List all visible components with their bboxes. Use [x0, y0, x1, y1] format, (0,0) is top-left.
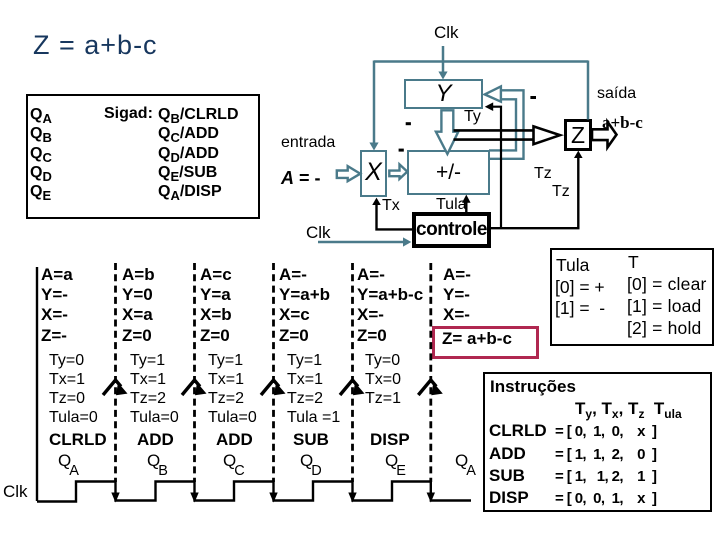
label Clk bottom [3, 482, 28, 502]
label T legend [628, 252, 639, 273]
transition arrow 2 [182, 380, 207, 395]
row CLRLD [489, 421, 547, 441]
minus sign at Y feedback [530, 96, 536, 99]
state column 5 node QE [385, 451, 406, 471]
clock edge dashed line 2 [193, 263, 196, 482]
state column 3 instruction ADD [216, 430, 253, 450]
ALU +/- [407, 150, 490, 195]
bus arrow register Y down to ALU [436, 110, 458, 154]
state column 2 controls [130, 351, 179, 427]
node QA..QE list [30, 105, 52, 201]
state column 6 registers [443, 265, 471, 326]
minus sign above ALU [399, 149, 404, 152]
label A = - [281, 168, 321, 189]
header Ty Tx Tz Tula [575, 399, 682, 419]
bus arrowhead into register Y [485, 86, 501, 101]
state column 4 instruction SUB [293, 430, 329, 450]
row SUB [489, 466, 525, 486]
wire ALU feedback to Y inner [489, 99, 516, 150]
wire Clk branch to register X [369, 61, 378, 151]
clock falling edge arrow 1 [111, 493, 119, 503]
state column 1 controls [49, 351, 98, 427]
label entrada [281, 134, 335, 152]
wire Clk bus horizontal [374, 60, 588, 63]
clock falling edge arrow 5 [427, 493, 435, 503]
clock waveform [37, 482, 471, 502]
state column 3 node QC [223, 451, 245, 471]
state column 1 node QA [58, 451, 79, 471]
minus sign left of Y-ALU arrow [406, 122, 411, 125]
register X [360, 150, 387, 197]
state column 6 node QA [455, 451, 476, 471]
state column 5 instruction DISP [370, 430, 410, 450]
result box Z= a+b-c [432, 326, 539, 359]
row DISP [489, 488, 529, 508]
wire Tula from controle to ALU [462, 195, 471, 213]
T [2] row [627, 318, 702, 339]
state column 5 controls [365, 351, 401, 408]
T [1] row [627, 296, 702, 317]
clock edge dashed line 1 [114, 263, 117, 482]
state column 3 registers [200, 265, 232, 346]
bus arrow register X to ALU [389, 164, 407, 179]
clock edge dashed line 4 [351, 263, 354, 482]
node transition list QB/CLRLD etc [158, 105, 239, 201]
T [0] row [627, 274, 707, 295]
transition arrow 3 [261, 380, 286, 395]
label Tz upper [534, 165, 552, 183]
title Z = a+b-c [33, 30, 158, 61]
wire Ty from controle to register Y [485, 102, 501, 228]
Instrucoes table [483, 372, 712, 512]
register Z [564, 119, 592, 151]
wire Tz from controle to register Z [490, 151, 583, 229]
label a+b-c output [602, 113, 643, 133]
bus arrow input A to register X [337, 166, 361, 181]
Tula [1] row [555, 298, 605, 319]
label Tula [436, 196, 467, 214]
state column 3 controls [208, 351, 257, 427]
transition arrow 5 [418, 380, 443, 395]
label Tx [382, 197, 400, 215]
wire ALU feedback to Y outer [490, 90, 524, 159]
state timeline solid edge line [36, 267, 38, 501]
state column 2 node QB [147, 451, 168, 471]
clock falling edge arrow 2 [190, 493, 198, 503]
label Instrucoes [490, 377, 576, 397]
row ADD [489, 444, 526, 464]
state column 5 registers [357, 265, 423, 346]
wire Clk to controle [318, 237, 411, 246]
register Y [404, 79, 483, 109]
label Sigad [104, 105, 153, 123]
wire Clk branch to register Z [587, 61, 590, 120]
transition arrow 1 [103, 380, 128, 395]
state column 1 instruction CLRLD [49, 430, 107, 450]
state column 4 node QD [300, 451, 322, 471]
wire Clk to register Y [438, 46, 447, 80]
label Tz lower [552, 183, 570, 201]
transition arrow 4 [340, 380, 365, 395]
bus arrow ALU to register Z [454, 126, 561, 144]
state column 4 controls [287, 351, 340, 427]
Tula [0] row [555, 277, 605, 298]
label Tula legend [556, 255, 589, 276]
controle unit box [412, 212, 491, 248]
wire Tx from controle to register X [372, 198, 413, 230]
state assignment box (Sigad) [26, 94, 260, 219]
clock falling edge arrow 3 [269, 493, 277, 503]
Tula/T legend table [550, 248, 714, 346]
state column 1 registers [41, 265, 73, 346]
label Ty [464, 108, 481, 126]
label Clk top [434, 23, 459, 43]
state column 2 instruction ADD [137, 430, 174, 450]
bus arrow register Z to output [592, 122, 617, 148]
label Clk middle [306, 223, 331, 243]
clock edge dashed line 3 [272, 263, 275, 482]
clock falling edge arrow 4 [348, 493, 356, 503]
label saida [597, 85, 636, 103]
state column 2 registers [122, 265, 155, 346]
clock edge dashed line 5 [429, 263, 432, 482]
state column 4 registers [279, 265, 330, 346]
